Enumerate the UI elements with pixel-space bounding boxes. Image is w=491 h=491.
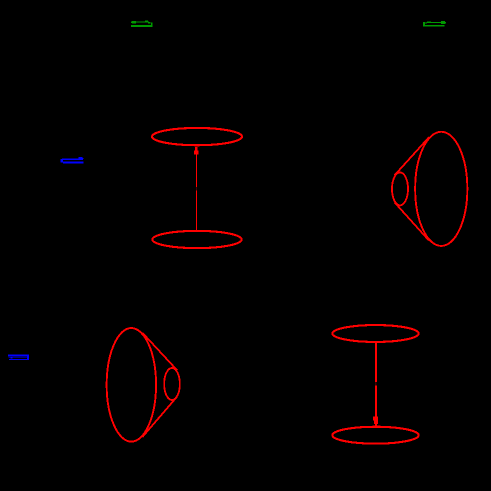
red cylinder (top-left): axis arrow pointing up (194, 147, 199, 231)
red cylinder (bottom-right): bottom ellipse (332, 427, 418, 444)
red cone (top-right): large ellipse (415, 132, 467, 246)
red cylinder (top-left): bottom ellipse (152, 231, 241, 248)
red cone (top-right): upper side line (395, 137, 429, 175)
red cone (top-right): lower side line (395, 202, 429, 240)
red cone (bottom-left): upper side line (142, 333, 177, 371)
red cylinder (bottom-right): axis arrow pointing down (373, 343, 378, 427)
red cone (bottom-left): lower side line (142, 397, 177, 438)
red cylinder (bottom-right): top ellipse (332, 325, 418, 342)
blue rotation arrow icon (lower-left, arrowhead pointing left) (8, 355, 29, 361)
blue rotation arrow icon (middle-left, arrowhead pointing right) (61, 157, 84, 164)
red cone (bottom-left): large ellipse (107, 328, 156, 442)
green rotation arrow icon (top-right, arrowhead pointing right) (423, 21, 446, 26)
green rotation arrow icon (top-left, arrowhead pointing left) (131, 21, 153, 27)
red cone (top-right): small apex ellipse (392, 172, 408, 205)
red cone (bottom-left): small apex ellipse (164, 368, 180, 400)
red cylinder (top-left): top ellipse (152, 128, 242, 145)
